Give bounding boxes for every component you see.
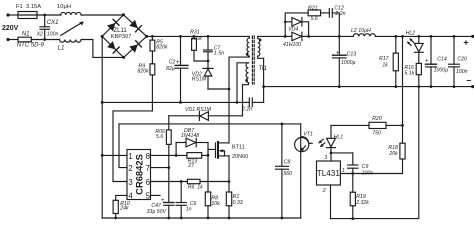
resistor R19 2.32k (350, 174, 369, 219)
wire L1 top to bridge top (81, 14, 123, 16)
capacitor C5 2.2n Y-cap (237, 87, 264, 113)
node R17 gnd junction (394, 85, 397, 88)
node bridge right vertex (145, 35, 148, 38)
svg-text:L1: L1 (58, 45, 65, 51)
svg-text:100n: 100n (456, 69, 468, 75)
svg-text:R18: R18 (388, 145, 398, 151)
transformer Tr1 primary winding (246, 38, 250, 56)
svg-text:100k: 100k (191, 36, 203, 42)
svg-text:C8: C8 (284, 159, 291, 165)
wire pin5 stub (151, 194, 161, 196)
svg-text:0.33: 0.33 (233, 200, 243, 206)
svg-text:8: 8 (146, 152, 150, 161)
wire R5 to R9 (151, 51, 153, 64)
node bridge left vertex (101, 35, 104, 38)
bridge diode bottom-left (107, 41, 119, 53)
bridge diode top-right (129, 20, 141, 32)
svg-text:1000µ: 1000µ (434, 67, 449, 73)
node C9 ref junction (351, 172, 354, 175)
svg-text:N1: N1 (22, 32, 30, 38)
svg-text:1n: 1n (186, 207, 192, 213)
svg-text:4: 4 (128, 191, 133, 200)
transistor Q1 BT11 20N60 MOSFET (216, 142, 249, 160)
wire primary ground rail (102, 217, 301, 219)
diode VD4 upper parallel branch (284, 18, 309, 37)
svg-text:+: + (336, 50, 340, 56)
svg-text:HL1: HL1 (334, 135, 344, 141)
wire input L to fuse (8, 14, 18, 16)
wire VD2 anode to drain column (208, 88, 229, 90)
inductor L1 bottom winding (58, 40, 81, 52)
node CX1 bottom junction (43, 38, 46, 41)
node R10 rail junction (114, 217, 117, 220)
wire pin4 to R10 (116, 195, 127, 200)
svg-text:VT1: VT1 (303, 132, 313, 138)
svg-text:5.6: 5.6 (311, 16, 318, 22)
svg-text:33µ 50V: 33µ 50V (147, 209, 167, 215)
svg-text:+: + (463, 37, 468, 47)
svg-text:R6 1k: R6 1k (188, 185, 203, 191)
svg-text:R20: R20 (372, 116, 382, 122)
node R19 rail junction (351, 217, 354, 220)
svg-text:R17: R17 (379, 56, 390, 62)
svg-text:3: 3 (324, 155, 327, 161)
node HL2 top junction (417, 35, 420, 38)
node C14 gnd junction (430, 85, 433, 88)
op-amp U1 CR6842S controller IC (127, 150, 151, 200)
svg-text:2: 2 (322, 188, 326, 194)
resistor R8 10k (205, 155, 220, 218)
node VD4 left junction (284, 35, 287, 38)
svg-text:–: – (466, 75, 471, 85)
capacitor C7 1.5n (204, 36, 225, 61)
resistor R1 0.33 (226, 156, 243, 218)
svg-text:41H100: 41H100 (283, 42, 301, 48)
resistor R9 820k (138, 64, 155, 75)
node C8 rail junction (281, 217, 284, 220)
svg-text:RS1M: RS1M (192, 76, 207, 82)
wire HL1 anode to R20 (331, 124, 369, 126)
svg-text:1: 1 (342, 168, 345, 174)
svg-text:Tr1: Tr1 (259, 66, 268, 72)
svg-text:2.2n: 2.2n (334, 11, 345, 17)
svg-text:VD4: VD4 (288, 26, 298, 32)
capacitor C8 560 (276, 124, 293, 218)
resistor R21 5.6 snubber (285, 5, 329, 22)
transformer Tr1 aux winding (245, 63, 248, 83)
svg-text:X2: X2 (36, 32, 43, 38)
diode DB7 1N4148 (176, 128, 208, 155)
opto light arrows (318, 139, 325, 147)
bridge rectifier ZL11 KBP307 diamond (102, 15, 147, 58)
svg-text:BT11: BT11 (232, 144, 245, 150)
wire L1 bottom to bridge bottom (81, 40, 124, 58)
svg-text:10µH: 10µH (57, 4, 71, 10)
node aux gnd 2.2n junction (236, 101, 239, 104)
svg-text:100n: 100n (362, 171, 374, 177)
transformer Tr1 core (252, 36, 254, 84)
svg-text:VD1 RS1M: VD1 RS1M (185, 107, 212, 113)
node R20 R18 junction (401, 124, 404, 127)
resistor R6 1k (187, 179, 229, 190)
wire cathode line to C9 (331, 152, 353, 154)
diode VD1 RS1M (169, 107, 243, 121)
svg-text:220V: 220V (2, 25, 19, 32)
svg-text:C9: C9 (362, 164, 369, 170)
resistor R18 20k (340, 143, 405, 173)
node gate R8 junction (207, 154, 210, 157)
diode VD4 lower 41H100 (283, 26, 309, 48)
capacitor C47 33u 50V (147, 168, 174, 218)
svg-text:+: + (176, 60, 180, 66)
node CX1 top junction (43, 14, 46, 17)
wire FB line to VT1 (119, 123, 301, 125)
svg-text:20k: 20k (388, 151, 398, 157)
wire VD4 to L2 (309, 35, 354, 37)
wire NTC to L1 bottom (31, 39, 59, 41)
svg-text:C20: C20 (457, 57, 467, 63)
node R1 rail junction (228, 217, 231, 220)
svg-text:1N4148: 1N4148 (181, 133, 199, 139)
resistor R17 1k (379, 36, 398, 86)
fuse F1 3.15A (16, 4, 41, 19)
wire secondary bottom to gnd bus (258, 56, 264, 87)
node C13 top junction (338, 35, 341, 38)
node output minus terminal (471, 85, 474, 88)
node snubber RC to VD2 (207, 60, 210, 63)
node L input terminal (6, 13, 9, 16)
svg-text:1k: 1k (382, 63, 388, 69)
resistor R13 27 (187, 153, 208, 170)
diode VD2 RS1M (192, 61, 213, 89)
node C47 rail junction (167, 217, 170, 220)
wire pin1 to GND bus (102, 154, 127, 156)
svg-text:750: 750 (372, 131, 381, 137)
svg-text:2: 2 (128, 164, 132, 173)
svg-text:820k: 820k (138, 69, 150, 75)
node C20 gnd junction (453, 85, 456, 88)
svg-text:KBP307: KBP307 (111, 34, 132, 40)
wire pin6 line (151, 181, 188, 183)
svg-text:R21: R21 (308, 5, 318, 11)
svg-text:7: 7 (146, 164, 150, 173)
transistor VT1 optocoupler phototransistor (295, 124, 313, 218)
svg-text:27: 27 (187, 163, 195, 169)
resistor R10 24k (113, 200, 130, 218)
svg-text:2.32k: 2.32k (355, 200, 369, 206)
svg-text:1: 1 (128, 152, 132, 161)
capacitor C9 100n (348, 153, 374, 177)
svg-text:6: 6 (146, 178, 150, 187)
svg-text:TL431: TL431 (317, 169, 341, 178)
svg-text:20N60: 20N60 (232, 154, 248, 160)
resistor R5 820k (150, 36, 168, 51)
svg-text:3: 3 (128, 178, 132, 187)
svg-text:C13: C13 (347, 52, 357, 58)
svg-text:1.5n: 1.5n (214, 50, 224, 56)
node secondary gnd junction (262, 85, 265, 88)
shunt regulator U2 TL431 (317, 153, 346, 219)
svg-text:R19: R19 (356, 194, 366, 200)
node VD2 drain junction (228, 88, 231, 91)
node DB7 R13 left junction (175, 154, 178, 157)
wire gate jog (208, 149, 216, 155)
svg-text:10k: 10k (211, 201, 220, 207)
wire aux top to gnd junction (237, 63, 249, 103)
svg-text:2.2n: 2.2n (241, 106, 252, 112)
wire R9 to pin3 route (113, 75, 152, 182)
svg-text:CR6842S: CR6842S (133, 154, 144, 195)
svg-text:560: 560 (283, 171, 292, 177)
svg-text:F1 3.15A: F1 3.15A (16, 4, 41, 10)
LED HL1 optocoupler diode (327, 125, 344, 152)
wire primary minus bus vertical (101, 36, 103, 218)
svg-text:HL2: HL2 (406, 31, 416, 37)
wire feedback vertical from plus (402, 36, 404, 143)
wire fuse to L1 (37, 14, 61, 16)
svg-text:NTC 5D-9: NTC 5D-9 (17, 42, 45, 48)
LED HL2 (406, 31, 424, 64)
node C2 bottom junction (179, 101, 182, 104)
wire primary GND horizontal line (102, 101, 237, 103)
svg-text:R31: R31 (190, 30, 200, 36)
inductor L2 10uH (351, 28, 375, 37)
resistor R06 5.6 (155, 116, 171, 168)
node bridge bottom vertex (122, 56, 125, 59)
node C20 top junction (453, 35, 456, 38)
svg-text:+: + (425, 59, 429, 65)
svg-text:82µ: 82µ (166, 66, 175, 72)
node C13 gnd junction (338, 85, 341, 88)
capacitor C14 1000u (425, 36, 448, 86)
node N input terminal (6, 38, 9, 41)
capacitor C6 1n (176, 182, 196, 219)
svg-text:5.1k: 5.1k (404, 70, 414, 76)
bridge diode bottom-right (129, 41, 141, 53)
resistor R16 5.1k (404, 63, 421, 86)
svg-text:C2: C2 (169, 59, 176, 65)
wire primary bottom to drain column (229, 56, 249, 143)
node HL1 cathode junction (330, 152, 333, 155)
svg-text:100n: 100n (47, 32, 59, 38)
svg-text:L2 10µH: L2 10µH (351, 28, 371, 34)
node pin7 VCC junction (167, 166, 170, 169)
node C8 FB junction (281, 123, 284, 126)
node C2 top junction (179, 35, 182, 38)
capacitor C20 100n (449, 36, 468, 86)
L1 coupling arrow (61, 21, 84, 35)
node pin1 GND junction (101, 154, 104, 157)
resistor R31 100k (190, 30, 202, 51)
inductor L1 common-mode choke top winding 10uH (57, 4, 81, 15)
node R1 sense junction (228, 180, 231, 183)
node C7 top junction (207, 35, 210, 38)
wire TL431 bottom rail (331, 87, 419, 219)
node VD4 right junction (307, 35, 310, 38)
wire pin2 to FB line (119, 124, 127, 168)
node R17 top junction (394, 35, 397, 38)
resistor R20 750 (369, 116, 403, 136)
node C14 top junction (430, 35, 433, 38)
capacitor C2 82u (166, 36, 188, 102)
node R31 top junction (193, 35, 196, 38)
svg-text:C14: C14 (437, 57, 447, 63)
svg-text:+: + (161, 198, 165, 204)
svg-text:820k: 820k (156, 44, 168, 50)
svg-text:5: 5 (146, 191, 151, 200)
capacitor CX1 X2 100n (36, 15, 59, 40)
wire pin7 VCC stub (151, 167, 169, 169)
capacitor C13 1000u (333, 36, 357, 86)
wire R31 bottom to snubber node (194, 50, 208, 61)
node C6 pin6 junction (180, 180, 183, 183)
svg-text:CX1: CX1 (47, 20, 59, 26)
transformer Tr1 secondary winding (258, 36, 262, 56)
wire L2 to output plus (375, 35, 472, 37)
svg-text:24k: 24k (119, 206, 129, 212)
wire secondary plus line (258, 35, 286, 37)
node R8 rail junction (207, 217, 210, 220)
wire input N to NTC (8, 39, 18, 41)
node bridge top vertex (122, 13, 125, 16)
capacitor C12 2.2n (329, 6, 345, 37)
wire secondary gnd bus (264, 86, 473, 88)
svg-text:1000µ: 1000µ (341, 60, 356, 66)
node output plus terminal (471, 35, 474, 38)
node R5 top junction (151, 35, 154, 38)
svg-text:5.6: 5.6 (156, 134, 163, 140)
thermistor N1 NTC 5D-9 (17, 32, 45, 49)
wire aux bottom to VD1 anode (243, 83, 249, 116)
bridge diode top-left (107, 19, 119, 31)
wire DC plus bus (147, 36, 250, 38)
node GND line junction (101, 101, 104, 104)
node C6 rail junction (180, 217, 183, 220)
node feedback top junction (401, 35, 404, 38)
wire pin8 gate line (151, 154, 187, 156)
node R16 gnd rail junction (417, 85, 420, 88)
